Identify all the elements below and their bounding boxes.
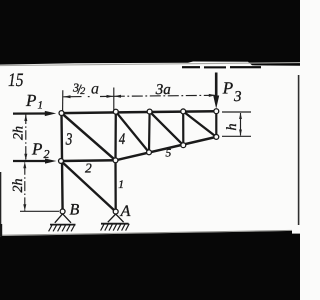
svg-text:2h: 2h — [11, 179, 26, 193]
svg-text:3: 3 — [65, 130, 72, 149]
svg-text:h: h — [225, 124, 240, 131]
svg-text:P: P — [31, 139, 42, 158]
svg-text:1: 1 — [38, 100, 44, 112]
svg-text:P: P — [222, 79, 233, 98]
svg-text:4: 4 — [119, 131, 125, 148]
svg-text:1: 1 — [118, 179, 124, 191]
svg-text:5: 5 — [166, 148, 172, 160]
svg-text:3a: 3a — [155, 82, 171, 98]
svg-text:2: 2 — [44, 147, 50, 161]
svg-text:15: 15 — [8, 70, 24, 91]
svg-text:A: A — [120, 203, 131, 220]
svg-text:B: B — [70, 201, 80, 218]
svg-text:P: P — [25, 91, 36, 110]
svg-text:3: 3 — [233, 89, 242, 105]
svg-text:2: 2 — [85, 161, 92, 176]
svg-text:2: 2 — [80, 86, 85, 97]
svg-text:2h: 2h — [12, 126, 27, 140]
svg-text:a: a — [91, 80, 99, 97]
